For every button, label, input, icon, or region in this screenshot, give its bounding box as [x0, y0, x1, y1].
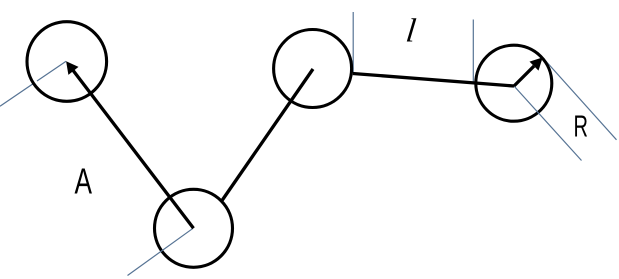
svg-text:R: R	[574, 109, 589, 144]
svg-text:A: A	[75, 161, 93, 202]
